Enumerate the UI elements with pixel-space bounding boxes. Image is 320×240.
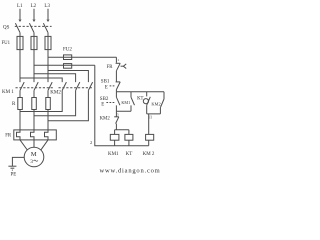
wire phase 3 KM1 to resistor bbox=[47, 90, 49, 97]
wire bypass feed phase3 to KM2 pole C bbox=[48, 71, 88, 83]
wire bypass return pole A to phase1 below R bbox=[20, 90, 62, 111]
wire phase 2 KM1 to resistor bbox=[33, 90, 35, 97]
contactor KM1 main contact 1 bbox=[20, 82, 24, 90]
wire L2 incoming with arrowhead bbox=[33, 9, 35, 22]
fuse FU1 pole 2 bbox=[31, 36, 37, 49]
wire phase 2 vertical bbox=[33, 33, 35, 83]
svg-text:M: M bbox=[31, 151, 37, 158]
switch QS linkage dashed bbox=[15, 25, 52, 27]
svg-text:5: 5 bbox=[117, 112, 119, 116]
wire bypass feed phase1 to KM2 pole A bbox=[20, 78, 62, 82]
contact FR NC bar bbox=[116, 62, 121, 64]
thermal relay FR box bbox=[14, 130, 57, 140]
wire KM2 NC to node bbox=[115, 124, 117, 130]
svg-text:E: E bbox=[101, 102, 104, 107]
contact KT blade bbox=[147, 97, 151, 105]
contactor KM2 main contact A bbox=[62, 82, 66, 90]
resistor R phase1 bbox=[18, 98, 23, 110]
contactor KM1 main contact 3 bbox=[48, 82, 52, 90]
wire control feed 1 from phase3 to right rail bbox=[48, 56, 116, 58]
contact KM2 NC blade bbox=[116, 117, 119, 124]
svg-text:SB1: SB1 bbox=[101, 80, 110, 85]
switch QS pole 3 blade bbox=[43, 23, 48, 32]
wire phase 2 resistor to FR bbox=[33, 110, 35, 130]
motor M circle bbox=[24, 147, 44, 167]
svg-text:KM2: KM2 bbox=[151, 102, 160, 107]
svg-text:E: E bbox=[105, 85, 108, 90]
ground PE wire bbox=[12, 157, 24, 166]
contact FR hook mark bbox=[121, 65, 124, 67]
svg-text:www.diangon.com: www.diangon.com bbox=[100, 167, 161, 174]
contact KT stub bbox=[146, 92, 148, 97]
contact FR NC blade bbox=[116, 63, 120, 71]
wire control left rail bbox=[95, 65, 149, 145]
wire bypass feed phase2 to KM2 pole B bbox=[34, 74, 76, 82]
wire node11 to KM2 coil bbox=[148, 114, 150, 134]
svg-text:FR: FR bbox=[5, 134, 12, 139]
wire coil feeder bbox=[115, 130, 129, 135]
contact KM2 aux blade bbox=[160, 99, 164, 108]
wire phase 1 resistor to FR bbox=[19, 110, 21, 130]
coil KM2 box bbox=[146, 134, 154, 140]
button SB1 actuator link dashed bbox=[110, 85, 115, 87]
wire KT contact to node11 bbox=[146, 105, 148, 114]
fuse FU1 pole 1 bbox=[17, 36, 23, 49]
wire bypass return pole B to phase2 below R bbox=[34, 90, 76, 115]
svg-text:L3: L3 bbox=[44, 4, 50, 9]
svg-text:KM2: KM2 bbox=[50, 91, 61, 96]
wire bypass return pole C to phase3 below R bbox=[48, 90, 88, 120]
svg-text:KM2: KM2 bbox=[100, 117, 111, 122]
fuse FU2 upper bbox=[64, 55, 72, 60]
button SB1 NC bar bbox=[116, 81, 121, 83]
wire L3 incoming with arrowhead bbox=[47, 9, 49, 22]
svg-text:KM 2: KM 2 bbox=[143, 152, 155, 157]
wire motor feed 2 bbox=[33, 140, 35, 147]
svg-text:3: 3 bbox=[30, 159, 33, 165]
wire phase 3 vertical bbox=[47, 33, 49, 83]
resistor R phase2 bbox=[32, 98, 37, 110]
contact KM1 aux stub bbox=[130, 92, 132, 98]
contact KM2 NC bar bbox=[114, 116, 119, 118]
svg-text:KM1: KM1 bbox=[121, 100, 130, 105]
wire coil KM2 bottom stub bbox=[148, 140, 150, 146]
wire phase 1 KM1 to resistor bbox=[19, 90, 21, 97]
fuse FU1 pole 3 bbox=[45, 36, 51, 49]
svg-text:L2: L2 bbox=[31, 4, 37, 9]
wire node3 horizontal (to KT branch) bbox=[116, 91, 164, 93]
svg-text:L1: L1 bbox=[17, 4, 23, 9]
svg-text:PE: PE bbox=[11, 173, 17, 178]
button SB1 NC blade bbox=[116, 82, 120, 90]
thermal relay FR heater 1 bbox=[17, 130, 21, 140]
wire phase 3 resistor to FR bbox=[47, 110, 49, 130]
wire node11 horizontal bbox=[147, 108, 161, 114]
button SB2 stub bbox=[115, 92, 117, 98]
wire SB2/KM1 bottom join bbox=[116, 105, 131, 111]
svg-text:KT: KT bbox=[137, 96, 143, 101]
resistor R phase3 bbox=[46, 98, 51, 110]
contactor KM2 main contact B bbox=[76, 82, 80, 90]
svg-text:KM 1: KM 1 bbox=[2, 90, 14, 95]
svg-text:KM1: KM1 bbox=[108, 152, 119, 157]
svg-text:FU1: FU1 bbox=[2, 41, 11, 46]
wire motor feed 1 bbox=[20, 140, 27, 150]
svg-text:FU2: FU2 bbox=[63, 47, 72, 52]
contact KM2 NC stub bbox=[115, 111, 117, 117]
contactor KM1 main contact 2 bbox=[34, 82, 38, 90]
svg-text:1: 1 bbox=[117, 58, 119, 62]
switch QS pole 2 blade bbox=[29, 23, 34, 32]
contactor KM2 main contact C bbox=[88, 82, 92, 90]
switch QS pole 1 blade bbox=[15, 23, 20, 32]
wire control feed 2 from phase2 to left rail bbox=[34, 64, 95, 66]
wire coil KT bottom stub bbox=[128, 140, 130, 146]
coil KT box bbox=[125, 134, 133, 140]
thermal relay FR heater 3 bbox=[45, 130, 49, 140]
contactor KM2 linkage dashed bbox=[59, 87, 94, 89]
svg-text:QS: QS bbox=[3, 26, 10, 31]
wire rail SB1 to node bbox=[115, 90, 117, 92]
fuse FU2 lower bbox=[64, 64, 72, 69]
wire phase 1 vertical (switch to KM1 contact) bbox=[19, 33, 21, 83]
wire control right rail top bbox=[115, 57, 117, 63]
svg-text:2: 2 bbox=[90, 140, 92, 145]
svg-text:FR: FR bbox=[107, 65, 114, 70]
wire coil KM1 bottom stub bbox=[114, 140, 116, 146]
svg-text:KT: KT bbox=[126, 152, 133, 157]
wire rail FR to SB1 bbox=[115, 71, 117, 82]
contact KM1 aux blade bbox=[131, 97, 135, 105]
button SB2 actuator link dashed bbox=[106, 102, 114, 104]
svg-text:R: R bbox=[12, 102, 16, 107]
contact KM2 aux stub bbox=[163, 92, 165, 99]
ground PE bars bbox=[8, 165, 16, 167]
thermal relay FR heater 2 bbox=[31, 130, 35, 140]
contactor KM1 linkage dashed bbox=[16, 87, 54, 89]
wire L1 incoming with arrowhead bbox=[19, 9, 21, 22]
button SB2 NO blade bbox=[116, 97, 120, 105]
coil KM1 box bbox=[110, 134, 119, 140]
wire motor feed 3 bbox=[41, 140, 48, 150]
contact KT delay arc bbox=[143, 99, 148, 104]
